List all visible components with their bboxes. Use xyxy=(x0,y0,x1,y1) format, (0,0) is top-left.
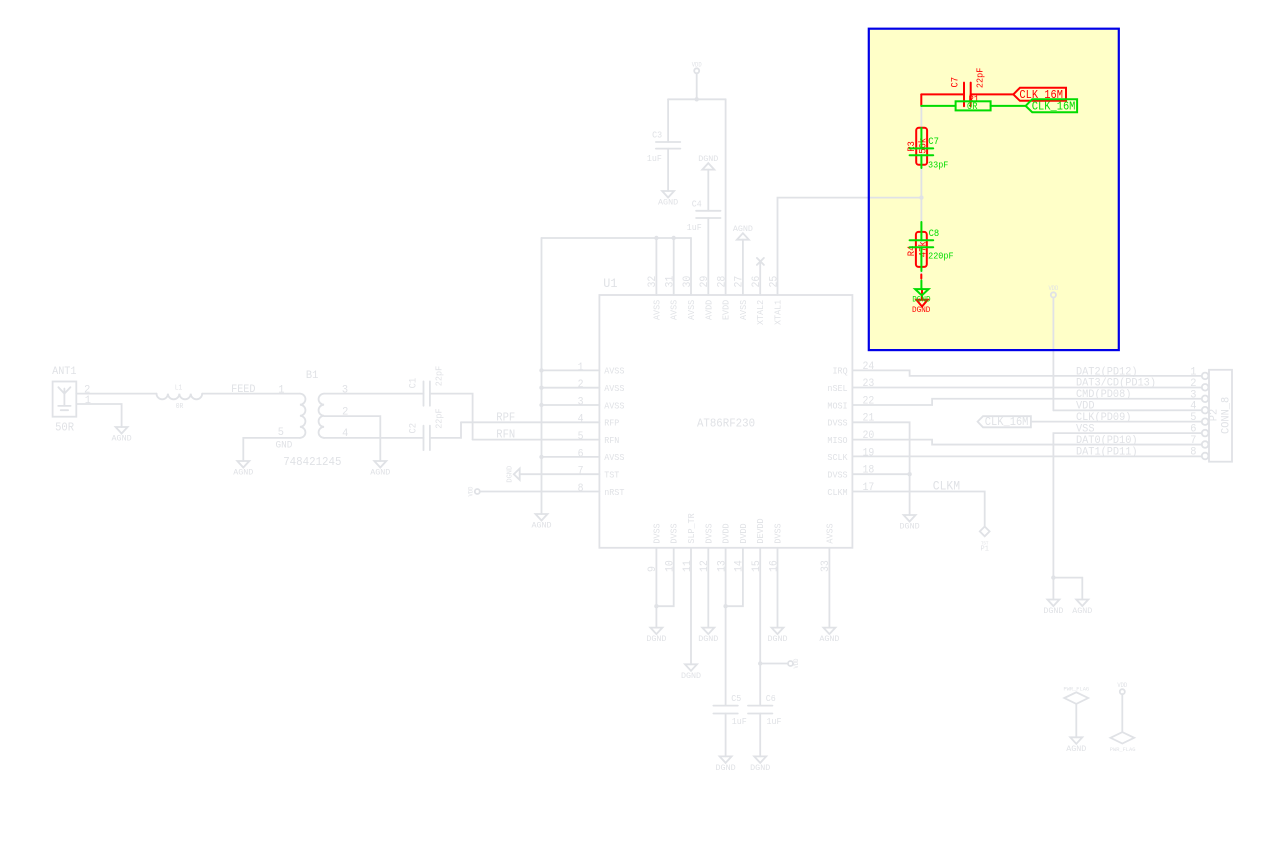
P2 pin circles xyxy=(1202,373,1209,460)
svg-text:XTAL2: XTAL2 xyxy=(755,300,766,325)
svg-text:5: 5 xyxy=(578,431,584,443)
ground DGND at TST pin7 xyxy=(514,469,520,480)
svg-text:DVSS: DVSS xyxy=(669,523,680,544)
U1 right pin numbers xyxy=(863,361,875,494)
svg-text:19: 19 xyxy=(863,447,875,459)
svg-text:MOSI: MOSI xyxy=(827,400,847,411)
svg-text:47k: 47k xyxy=(918,241,929,257)
svg-text:CLK_16M: CLK_16M xyxy=(985,416,1029,429)
power VDD bottom right xyxy=(1120,689,1125,694)
svg-text:15: 15 xyxy=(751,560,763,572)
svg-text:16: 16 xyxy=(768,560,780,572)
svg-text:SCLK: SCLK xyxy=(827,452,848,463)
wire AGND to U1 pin27 xyxy=(742,240,744,295)
ground DGND pin11 xyxy=(681,664,701,680)
wire U1 pin2 xyxy=(542,387,600,389)
ground DGND DVSS xyxy=(900,515,920,531)
svg-text:EVDD: EVDD xyxy=(721,299,732,320)
power VDD in highlight box xyxy=(1051,292,1056,297)
svg-text:DGND: DGND xyxy=(681,671,701,681)
svg-text:CLK_16M: CLK_16M xyxy=(1032,101,1076,114)
wire DGND to C4 xyxy=(707,170,709,211)
svg-text:1: 1 xyxy=(578,362,584,374)
wire U1 pin18 DVSS xyxy=(852,473,909,475)
svg-text:AGND: AGND xyxy=(112,433,132,443)
wire U1 pin24 IRQ to DAT2 xyxy=(852,370,1201,376)
wire U1 pin25 XTAL1 to crystal node xyxy=(778,198,922,295)
wire U1 pin20 MISO to DAT0 xyxy=(852,440,1201,445)
wire U1 pin11 SLP_TR to DGND xyxy=(690,548,692,665)
wire U1 pin13 DVDD xyxy=(725,548,727,706)
wire top AVSS bus xyxy=(542,237,692,239)
ground AGND pwr flag xyxy=(1066,737,1086,753)
svg-text:9: 9 xyxy=(647,566,659,572)
svg-text:13: 13 xyxy=(716,560,728,572)
svg-text:AGND: AGND xyxy=(1072,606,1092,616)
svg-text:12: 12 xyxy=(699,560,711,572)
svg-text:1: 1 xyxy=(278,383,284,396)
junction rail pin6 xyxy=(539,455,543,459)
svg-text:8: 8 xyxy=(578,483,584,495)
wire RPF to U1 pin4 xyxy=(461,421,599,423)
wire VSS to AGND xyxy=(1053,578,1082,600)
wire U1 pin31 xyxy=(673,238,675,295)
ground DGND pin16 xyxy=(767,628,787,644)
svg-text:nSEL: nSEL xyxy=(827,383,848,394)
ground DGND C6 xyxy=(750,756,770,772)
wire red DGND stem xyxy=(921,289,923,300)
svg-text:1uF: 1uF xyxy=(767,716,782,727)
power VDD top xyxy=(694,68,699,73)
svg-text:ANT1: ANT1 xyxy=(52,366,77,378)
svg-text:C7: C7 xyxy=(949,77,960,88)
svg-text:VDD: VDD xyxy=(468,486,475,496)
svg-text:1: 1 xyxy=(85,394,91,407)
power DGND above C4 xyxy=(698,154,718,170)
wire VDD to U1 pin28 xyxy=(725,99,727,295)
wire VSS row xyxy=(1053,433,1201,577)
svg-text:748421245: 748421245 xyxy=(283,455,341,469)
svg-text:4: 4 xyxy=(578,414,584,426)
wire nRST to U1 pin8 xyxy=(480,491,600,493)
svg-text:DGND: DGND xyxy=(900,521,920,531)
flag PWR_FLAG right xyxy=(1111,732,1135,743)
svg-text:B1: B1 xyxy=(306,369,319,382)
ground DGND pin12 xyxy=(698,628,718,644)
svg-text:0R: 0R xyxy=(176,403,184,411)
svg-text:U1: U1 xyxy=(603,276,617,291)
wire B1 pin2 to AGND xyxy=(324,416,380,461)
svg-text:PWR_FLAG: PWR_FLAG xyxy=(1110,746,1136,753)
svg-text:AGND: AGND xyxy=(233,467,253,477)
svg-text:VDD: VDD xyxy=(793,658,800,668)
wire green C7 top stub xyxy=(920,128,922,148)
wire U1 pin12 to DGND xyxy=(707,548,709,628)
wire U1 pin30 xyxy=(690,238,692,295)
wire ANT1 pin2 to L1 xyxy=(76,393,156,395)
svg-text:DVSS: DVSS xyxy=(703,523,714,544)
wire green C8 top stub xyxy=(920,222,922,240)
wire U1 pin6 xyxy=(542,456,600,458)
svg-text:AGND: AGND xyxy=(733,224,753,234)
svg-text:11: 11 xyxy=(682,560,694,572)
wire AVSS left rail xyxy=(541,238,543,514)
power AGND above pin27 xyxy=(733,224,753,240)
testpoint P1 diamond xyxy=(980,527,990,537)
wire green R1 right xyxy=(991,105,1026,107)
wire VDD to PWR_FLAG xyxy=(1121,694,1123,732)
svg-text:nRST: nRST xyxy=(604,487,625,498)
highlight box border xyxy=(869,29,1119,350)
wire U1 pin19 SCLK to DAT1 xyxy=(852,455,1201,457)
svg-text:P1: P1 xyxy=(981,546,990,554)
svg-text:1uF: 1uF xyxy=(687,222,702,233)
wire C2 to RPF row xyxy=(430,422,461,438)
wire C3 to AGND xyxy=(667,149,669,191)
ground AGND bottom right xyxy=(1072,600,1092,616)
svg-text:VSS: VSS xyxy=(1076,424,1095,436)
wire PWR_FLAG to AGND xyxy=(1075,704,1077,737)
capacitor C8 added xyxy=(910,240,934,247)
svg-text:CMD(PD08): CMD(PD08) xyxy=(1076,389,1131,401)
wire crystal node vertical xyxy=(920,106,922,282)
svg-text:DAT3/CD(PD13): DAT3/CD(PD13) xyxy=(1076,378,1156,390)
svg-text:RFN: RFN xyxy=(604,435,619,446)
resistor R1 added xyxy=(956,101,991,110)
no-connect X pin26 xyxy=(757,258,764,265)
svg-text:DAT2(PD12): DAT2(PD12) xyxy=(1076,366,1138,378)
P2 pin numbers xyxy=(1190,365,1196,458)
svg-text:22pF: 22pF xyxy=(433,366,444,386)
wire U1 pin21 DVSS down xyxy=(852,422,909,515)
svg-text:AVSS: AVSS xyxy=(604,400,625,411)
svg-text:VDD: VDD xyxy=(1076,401,1095,413)
svg-text:25: 25 xyxy=(768,276,780,288)
wire B1 pin4 to C2 xyxy=(324,437,423,439)
svg-text:1uF: 1uF xyxy=(647,153,662,164)
svg-text:P2: P2 xyxy=(1207,409,1220,422)
junction pin32 bus xyxy=(654,236,658,240)
wire U1 pin9 DVSS xyxy=(655,548,657,606)
svg-text:3: 3 xyxy=(578,396,584,408)
wire VDD to connector pin4 xyxy=(1053,409,1201,411)
svg-text:DGND: DGND xyxy=(716,763,736,773)
svg-text:AVSS: AVSS xyxy=(604,452,625,463)
wire U1 pin32 xyxy=(655,238,657,295)
svg-text:AVSS: AVSS xyxy=(669,299,680,320)
wire U1 pin14 DVDD xyxy=(726,548,743,606)
wire U1 pin1 xyxy=(542,369,600,371)
svg-text:C3: C3 xyxy=(652,129,662,140)
ground DGND pin9 xyxy=(646,628,666,644)
svg-text:30: 30 xyxy=(682,276,694,288)
svg-text:CLKM: CLKM xyxy=(827,487,847,498)
wire red C7 left xyxy=(921,93,964,95)
svg-text:26: 26 xyxy=(751,276,763,288)
svg-text:7: 7 xyxy=(578,466,584,478)
svg-text:AGND: AGND xyxy=(819,634,839,644)
svg-text:AVSS: AVSS xyxy=(686,299,697,320)
capacitor C1 xyxy=(424,381,430,405)
svg-text:DGND: DGND xyxy=(912,295,930,305)
svg-text:CLKM: CLKM xyxy=(933,480,960,494)
power VDD at nRST xyxy=(475,489,480,494)
svg-text:AGND: AGND xyxy=(658,197,678,207)
svg-text:DVDD: DVDD xyxy=(738,523,749,544)
svg-text:33: 33 xyxy=(820,560,832,572)
wire green DGND stem xyxy=(920,281,922,290)
svg-text:C5: C5 xyxy=(731,693,741,704)
svg-text:AVSS: AVSS xyxy=(738,299,749,320)
wire pin9 to DGND xyxy=(655,606,657,627)
svg-text:AVSS: AVSS xyxy=(824,523,835,544)
ground AGND B1 pin5 xyxy=(233,461,253,477)
resistor R4 removed xyxy=(916,232,927,267)
capacitor C7 added xyxy=(910,148,934,155)
svg-text:DGND: DGND xyxy=(750,763,770,773)
capacitor C6 xyxy=(748,706,772,714)
svg-text:AVSS: AVSS xyxy=(604,383,625,394)
junction pin9/10 xyxy=(654,604,658,608)
svg-text:DVSS: DVSS xyxy=(827,418,848,429)
wire ANT1 pin1 to AGND xyxy=(76,404,121,427)
wire B1 pin5 to AGND xyxy=(243,438,300,461)
svg-text:2: 2 xyxy=(578,379,584,391)
svg-text:RFN: RFN xyxy=(496,428,515,441)
svg-text:DVSS: DVSS xyxy=(651,523,662,544)
svg-text:0R: 0R xyxy=(967,101,978,112)
svg-text:29: 29 xyxy=(699,276,711,288)
svg-text:56k: 56k xyxy=(918,138,929,154)
svg-text:DGND: DGND xyxy=(912,305,930,315)
capacitor C7 removed xyxy=(964,83,971,107)
junction pin15 VDD tap xyxy=(758,661,762,665)
wire green R1 left xyxy=(921,105,955,107)
junction rail pin1 xyxy=(539,368,543,372)
svg-text:DGND: DGND xyxy=(646,634,666,644)
transformer B1 winding left xyxy=(300,394,306,438)
svg-text:31: 31 xyxy=(665,275,677,287)
svg-text:220pF: 220pF xyxy=(928,250,954,261)
svg-text:RFP: RFP xyxy=(604,418,619,429)
svg-text:R3: R3 xyxy=(906,141,917,152)
svg-text:22pF: 22pF xyxy=(975,68,986,88)
svg-text:AVSS: AVSS xyxy=(604,366,625,377)
wire red vertical xyxy=(920,94,922,106)
wire U1 pin23 nSEL to DAT3 xyxy=(852,387,1201,389)
U1 bottom pin numbers xyxy=(647,560,832,572)
svg-text:DAT1(PD11): DAT1(PD11) xyxy=(1076,446,1138,458)
power VDD small right xyxy=(788,661,793,666)
svg-text:32: 32 xyxy=(647,276,659,288)
ground DGND removed xyxy=(916,300,927,307)
U1 right pin names xyxy=(827,366,848,498)
wire U1 pin22 MOSI to CMD xyxy=(852,399,1201,405)
wire U1 pin26 stub xyxy=(759,261,761,295)
svg-text:L1: L1 xyxy=(175,384,183,392)
hierarchical label CLK_16M added xyxy=(1026,99,1078,112)
svg-text:FEED: FEED xyxy=(231,384,256,396)
svg-text:8: 8 xyxy=(1190,445,1196,458)
U1 top pin names xyxy=(651,299,783,325)
junction pin13/14 xyxy=(723,604,727,608)
svg-text:GND: GND xyxy=(276,440,293,452)
wire VDD rail top xyxy=(668,98,726,100)
ground DGND added xyxy=(915,289,929,295)
capacitor C3 xyxy=(656,142,680,149)
ground DGND bottom right xyxy=(1043,600,1063,616)
ground AGND rail bottom xyxy=(531,514,551,530)
svg-text:DGND: DGND xyxy=(767,634,787,644)
hierarchical label CLK_16M removed xyxy=(1013,88,1066,101)
svg-text:33pF: 33pF xyxy=(928,159,948,170)
junction pin18 DVSS xyxy=(907,472,911,476)
resistor R3 removed xyxy=(916,128,927,165)
ground AGND B1 pin2 xyxy=(370,461,390,477)
wire U1 pin15 DEVDD xyxy=(759,548,761,706)
U1 left pin names xyxy=(604,366,625,498)
svg-text:CONN_8: CONN_8 xyxy=(1220,397,1233,434)
wire green C7 bottom stub xyxy=(920,155,922,168)
wire C6 to DGND xyxy=(759,714,761,757)
wire CLK_16M to CLK xyxy=(1031,421,1202,423)
junction crystal node xyxy=(919,195,923,199)
svg-text:AT86RF230: AT86RF230 xyxy=(697,416,755,430)
svg-text:VDD: VDD xyxy=(692,62,702,69)
capacitor C2 xyxy=(424,426,430,450)
wire L1 to B1 pin1 xyxy=(202,393,300,395)
svg-text:DEVDD: DEVDD xyxy=(755,518,766,544)
svg-text:DVDD: DVDD xyxy=(721,523,732,544)
hierarchical label CLK_16M gray xyxy=(978,416,1031,427)
junction VSS split xyxy=(1051,575,1055,579)
svg-text:TST: TST xyxy=(604,470,619,481)
svg-text:CLK(PD09): CLK(PD09) xyxy=(1076,412,1131,424)
svg-text:22pF: 22pF xyxy=(433,408,444,428)
wire U1 pin10 DVSS xyxy=(656,548,673,606)
antenna ANT1 xyxy=(53,382,77,417)
svg-text:50R: 50R xyxy=(55,421,74,435)
svg-text:XTAL1: XTAL1 xyxy=(773,299,784,325)
wire U1 pin33 to AGND xyxy=(828,548,830,628)
junction rail pin3 xyxy=(539,403,543,407)
svg-text:PWR_FLAG: PWR_FLAG xyxy=(1064,686,1090,693)
svg-text:DGND: DGND xyxy=(698,154,718,164)
svg-text:C4: C4 xyxy=(692,198,702,209)
svg-text:6: 6 xyxy=(578,448,584,460)
svg-text:C6: C6 xyxy=(766,693,776,704)
svg-text:C1: C1 xyxy=(408,378,419,389)
svg-text:C8: C8 xyxy=(929,228,940,239)
wire TST to U1 pin7 xyxy=(520,473,600,475)
wire red C7 right xyxy=(971,93,1014,95)
power VDD in box stem xyxy=(1052,298,1054,411)
svg-text:IRQ: IRQ xyxy=(833,366,848,377)
svg-text:AGND: AGND xyxy=(531,520,551,530)
svg-text:DVSS: DVSS xyxy=(827,470,848,481)
highlight box fill xyxy=(869,29,1119,350)
wire U1 pin16 to DGND xyxy=(777,548,779,628)
wire U1 pin17 CLKM to testpoint xyxy=(852,492,984,527)
wire B1 pin3 to C1 xyxy=(324,393,423,395)
IC U1 AT86RF230 body xyxy=(599,295,852,548)
ground AGND pin33 xyxy=(819,628,839,644)
svg-text:RPF: RPF xyxy=(496,411,515,424)
svg-text:DAT0(PD10): DAT0(PD10) xyxy=(1076,435,1138,447)
wire red R4 stub xyxy=(920,275,922,279)
svg-text:AGND: AGND xyxy=(1066,744,1086,754)
svg-text:MISO: MISO xyxy=(827,435,848,446)
svg-text:SLP_TR: SLP_TR xyxy=(686,513,697,544)
svg-text:AGND: AGND xyxy=(370,467,390,477)
capacitor C4 xyxy=(696,211,720,218)
svg-text:VDD: VDD xyxy=(1117,682,1127,689)
junction pin31 bus xyxy=(672,236,676,240)
transformer B1 winding right xyxy=(319,394,325,438)
svg-text:10: 10 xyxy=(665,560,677,572)
connector P2 body xyxy=(1209,370,1232,462)
svg-text:1uF: 1uF xyxy=(732,716,747,727)
svg-text:C7: C7 xyxy=(928,136,939,147)
svg-text:DGND: DGND xyxy=(506,465,514,482)
svg-text:DVSS: DVSS xyxy=(773,523,784,544)
svg-text:14: 14 xyxy=(734,560,746,572)
svg-text:28: 28 xyxy=(716,276,728,288)
wire VSS to DGND xyxy=(1052,578,1054,600)
svg-text:C2: C2 xyxy=(408,423,419,434)
wire VDD stem xyxy=(696,73,698,99)
svg-text:VDD: VDD xyxy=(1048,285,1058,292)
U1 left pin numbers xyxy=(578,362,584,495)
wire green C8 bottom stub xyxy=(920,247,922,271)
svg-text:27: 27 xyxy=(734,276,746,288)
svg-text:DGND: DGND xyxy=(1043,606,1063,616)
wire RFN to U1 pin5 xyxy=(473,439,600,441)
svg-text:AVSS: AVSS xyxy=(651,299,662,320)
wire C1 to RFN row xyxy=(430,394,473,440)
junction rail pin2 xyxy=(539,386,543,390)
flag PWR_FLAG left xyxy=(1064,692,1088,704)
wire C5 to DGND xyxy=(725,714,727,757)
U1 bottom pin names xyxy=(651,513,835,544)
wire U1 pin3 xyxy=(542,404,600,406)
junction VDD node xyxy=(695,97,699,101)
svg-text:AVDD: AVDD xyxy=(703,299,714,320)
wire VDD tap xyxy=(760,663,788,665)
capacitor C5 xyxy=(713,706,737,714)
svg-text:DGND: DGND xyxy=(698,634,718,644)
wire down to C3 xyxy=(667,99,669,142)
ground AGND antenna xyxy=(112,427,132,443)
ground AGND below C3 xyxy=(658,191,678,207)
inductor L1 xyxy=(157,394,203,400)
ground DGND C5 xyxy=(716,756,736,772)
wire C4 to U1 pin29 xyxy=(707,218,709,295)
U1 top pin numbers xyxy=(647,275,780,287)
